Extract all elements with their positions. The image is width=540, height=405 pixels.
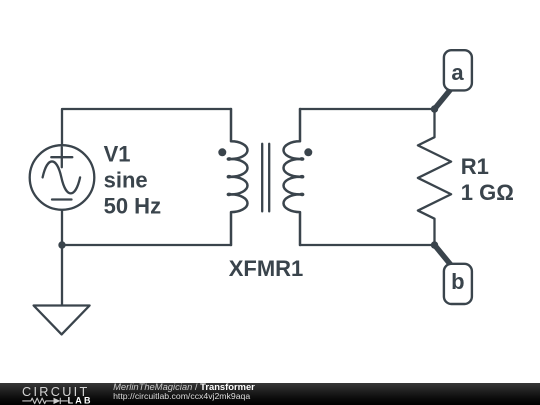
svg-text:V1: V1: [104, 142, 131, 167]
svg-text:1 GΩ: 1 GΩ: [461, 180, 514, 205]
svg-text:http://circuitlab.com/ccx4vj2m: http://circuitlab.com/ccx4vj2mk9aqa: [113, 391, 250, 401]
transformer XFMR1 secondary coil: [284, 109, 304, 245]
wire bottom-right loop: [300, 244, 435, 246]
svg-text:XFMR1: XFMR1: [229, 256, 304, 281]
node a junction dot: [431, 105, 438, 112]
wire top-right loop: [300, 108, 435, 110]
svg-text:sine: sine: [104, 168, 148, 193]
node b flag pole: [435, 245, 456, 270]
transformer XFMR1 primary polarity dot: [218, 148, 226, 156]
svg-text:b: b: [451, 269, 464, 294]
node b box: [444, 264, 472, 304]
svg-text:LAB: LAB: [68, 395, 93, 405]
voltage source V1 sine symbol: [43, 161, 81, 193]
transformer XFMR1 core: [262, 144, 269, 212]
svg-text:50 Hz: 50 Hz: [104, 194, 161, 219]
voltage source V1 circle: [30, 145, 95, 210]
wire bottom-left loop: [62, 210, 231, 305]
CircuitLab logo and credits: [0, 383, 540, 405]
node a box: [444, 50, 472, 90]
node junction at V1 bottom: [58, 241, 65, 248]
svg-text:a: a: [451, 60, 464, 85]
ground: [34, 306, 90, 335]
voltage source V1 minus sign: [52, 198, 72, 200]
node a flag pole: [435, 84, 456, 109]
footer bar: [0, 383, 540, 405]
resistor R1: [418, 109, 451, 245]
transformer XFMR1 primary coil: [228, 109, 248, 245]
node b junction dot: [431, 241, 438, 248]
wire top-left loop: [62, 109, 231, 145]
svg-text:R1: R1: [461, 154, 489, 179]
voltage source V1 plus sign: [51, 147, 72, 167]
transformer XFMR1 secondary polarity dot: [304, 148, 312, 156]
